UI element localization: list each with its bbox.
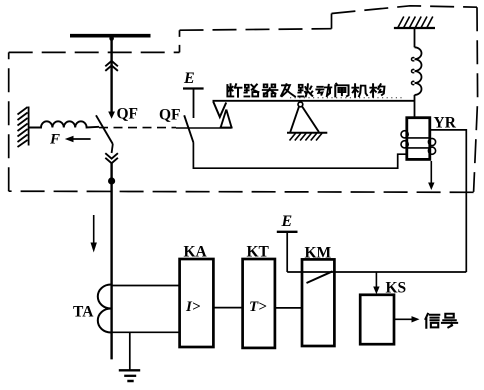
svg-text:TA: TA: [73, 304, 94, 321]
ground: [119, 369, 140, 371]
latch pawl triangle: [220, 110, 233, 128]
trip coil YR: [407, 118, 430, 160]
label 信号: [425, 314, 439, 328]
time relay KT: [243, 259, 275, 348]
current direction arrow: [93, 215, 95, 243]
wire YR to KM contact: [430, 130, 467, 272]
busbar: [70, 34, 151, 38]
svg-text:QF: QF: [159, 107, 181, 124]
breaker QF auxiliary contact blade: [184, 115, 193, 142]
dashed enclosure box of breaker and trip mechanism: [9, 6, 478, 193]
intermediate relay KM box: [302, 259, 334, 346]
wire ceiling to spring: [414, 28, 416, 47]
branch arrow into KS: [375, 272, 377, 287]
wire aux contact to YR bottom: [193, 143, 406, 169]
svg-text:F: F: [49, 132, 60, 148]
caption: 断路器及跳动闸机构: [227, 84, 384, 97]
KM contact blade: [307, 271, 333, 283]
latch hook V: [213, 102, 226, 118]
node junction dot: [108, 177, 115, 184]
svg-text:KM: KM: [305, 245, 332, 262]
svg-text:KT: KT: [247, 244, 270, 261]
svg-text:KA: KA: [184, 244, 208, 261]
current relay KA: [180, 259, 214, 347]
dotted rule under caption: [290, 97, 402, 99]
force arrow F: [70, 138, 91, 140]
node busbar tap: [109, 36, 114, 41]
primary conductor down to TA: [110, 163, 112, 359]
wire E through KM to YR branch: [287, 271, 466, 273]
mechanical link dashes QF blade to aux contact: [99, 127, 176, 129]
spring to wall: [29, 121, 99, 127]
current transformer TA: [98, 285, 111, 333]
svg-text:KS: KS: [386, 280, 407, 297]
breaker QF main blade: [96, 115, 113, 144]
QF fixed contact arrowhead: [108, 112, 115, 119]
fulcrum hatches: [290, 133, 323, 140]
fulcrum pivot circle: [298, 102, 303, 107]
aux contact base wire: [176, 127, 232, 129]
drawout chevrons lower: [105, 153, 118, 163]
trip lever bar: [213, 100, 415, 102]
fulcrum triangle: [290, 106, 319, 132]
svg-text:T>: T>: [249, 299, 267, 315]
TA secondary wires to KA: [111, 285, 180, 287]
return spring vertical: [415, 47, 422, 95]
wire KA to KT: [213, 307, 242, 309]
signal output arrow: [394, 318, 412, 320]
fulcrum ground line: [287, 132, 327, 134]
ground tap wire: [129, 332, 131, 369]
wire KT to KM: [275, 307, 302, 309]
svg-text:QF: QF: [117, 106, 139, 123]
svg-text:E: E: [281, 213, 293, 230]
anchor wall left: [18, 107, 29, 148]
wire from busbar down to QF fixed contact: [110, 37, 112, 112]
svg-text:I>: I>: [185, 299, 201, 315]
wire blade to chevrons: [112, 144, 113, 153]
signal relay KS: [360, 295, 394, 344]
striker arrow below YR: [430, 161, 432, 183]
wire spring to YR plunger: [414, 95, 416, 118]
svg-text:E: E: [183, 70, 195, 87]
ceiling anchor top right: [394, 27, 435, 29]
drawout chevrons upper: [105, 61, 118, 71]
svg-text:YR: YR: [434, 115, 457, 132]
